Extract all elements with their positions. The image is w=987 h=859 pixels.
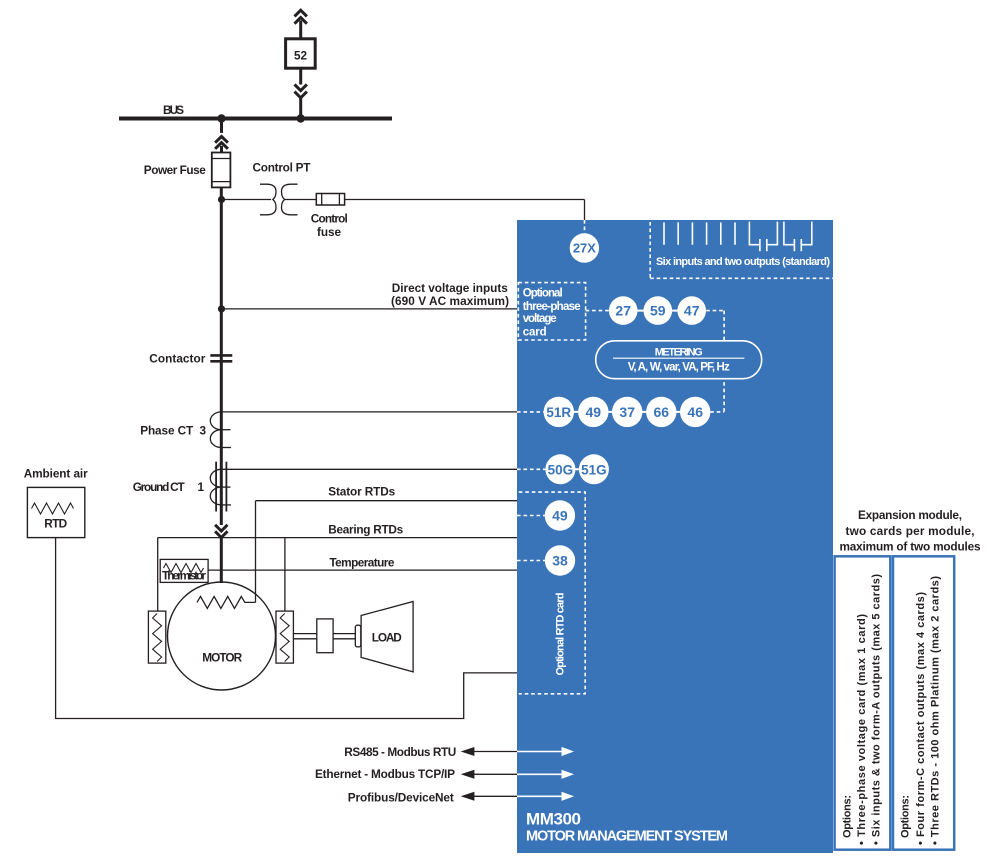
svg-text:52: 52 [294, 49, 308, 63]
svg-text:Profibus/DeviceNet: Profibus/DeviceNet [348, 791, 454, 805]
svg-text:Control: Control [311, 211, 348, 225]
svg-text:3: 3 [200, 424, 207, 438]
svg-text:51G: 51G [581, 462, 607, 477]
svg-text:Options:: Options: [900, 795, 912, 838]
svg-text:Phase CT: Phase CT [140, 424, 194, 438]
svg-text:Contactor: Contactor [149, 352, 205, 366]
svg-text:50G: 50G [548, 462, 574, 477]
svg-text:fuse: fuse [317, 225, 341, 239]
svg-text:49: 49 [552, 508, 568, 524]
svg-text:METERING: METERING [655, 347, 703, 359]
svg-text:37: 37 [619, 404, 635, 420]
svg-text:Stator RTDs: Stator RTDs [328, 484, 395, 498]
svg-text:27: 27 [615, 303, 631, 319]
svg-text:66: 66 [654, 404, 670, 420]
svg-text:Thermistor: Thermistor [162, 569, 206, 583]
svg-text:card: card [523, 326, 547, 338]
svg-text:51R: 51R [546, 405, 571, 420]
svg-text:MOTOR MANAGEMENT SYSTEM: MOTOR MANAGEMENT SYSTEM [526, 829, 728, 845]
svg-text:46: 46 [687, 404, 703, 420]
svg-text:maximum of two modules: maximum of two modules [840, 540, 981, 554]
svg-text:1: 1 [198, 480, 205, 494]
svg-text:MOTOR: MOTOR [202, 650, 242, 664]
svg-text:Optional RTD card: Optional RTD card [555, 593, 567, 676]
svg-text:LOAD: LOAD [372, 631, 402, 645]
svg-text:BUS: BUS [163, 103, 184, 117]
svg-text:Optional: Optional [523, 287, 563, 299]
svg-text:27X: 27X [573, 241, 596, 256]
svg-text:V, A, W, var, VA, PF, Hz: V, A, W, var, VA, PF, Hz [628, 361, 730, 373]
svg-text:Six inputs and two outputs (st: Six inputs and two outputs (standard) [656, 256, 830, 268]
svg-text:Options:: Options: [842, 795, 854, 838]
svg-text:49: 49 [586, 404, 602, 420]
svg-text:(690 V AC maximum): (690 V AC maximum) [391, 294, 509, 308]
svg-text:Temperature: Temperature [329, 556, 394, 570]
svg-text:• Four form-C contact output: • Four form-C contact outputs (max 4 car… [915, 592, 927, 845]
svg-text:Ground CT: Ground CT [133, 480, 186, 494]
svg-text:• Six inputs & two form-A ou: • Six inputs & two form-A outputs (max 5… [871, 574, 883, 845]
svg-text:Power Fuse: Power Fuse [144, 163, 206, 177]
svg-text:Expansion module,: Expansion module, [858, 508, 962, 522]
svg-text:Ambient air: Ambient air [24, 466, 88, 480]
svg-text:59: 59 [650, 303, 666, 319]
svg-text:RTD: RTD [44, 516, 67, 530]
svg-text:Bearing RTDs: Bearing RTDs [328, 523, 403, 537]
svg-text:Ethernet - Modbus TCP/IP: Ethernet - Modbus TCP/IP [315, 767, 455, 781]
svg-text:• Three RTDs - 100 ohm Plati: • Three RTDs - 100 ohm Platinum (max 2 c… [930, 576, 942, 845]
svg-text:• Three-phase voltage card (: • Three-phase voltage card (max 1 card) [856, 614, 868, 845]
svg-text:47: 47 [684, 303, 700, 319]
svg-text:MM300: MM300 [526, 810, 581, 829]
svg-text:38: 38 [552, 553, 568, 569]
svg-text:three-phase: three-phase [523, 301, 581, 313]
svg-text:voltage: voltage [523, 313, 557, 325]
svg-text:two cards per module,: two cards per module, [846, 524, 975, 538]
svg-text:RS485 - Modbus RTU: RS485 - Modbus RTU [344, 745, 456, 759]
svg-text:Control PT: Control PT [253, 161, 312, 175]
